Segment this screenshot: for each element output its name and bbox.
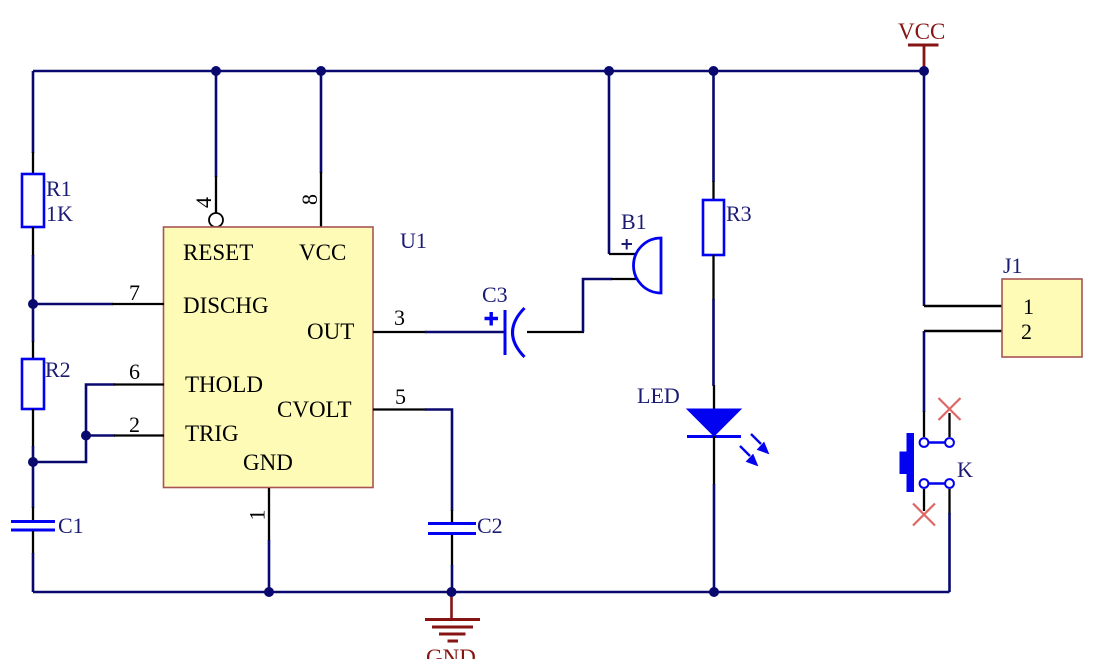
VCC symbol: [908, 45, 939, 69]
wire bottom ground rail: [33, 591, 950, 594]
wire C3 to buzzer: [583, 279, 612, 332]
switch K contact bar bottom: [924, 482, 950, 484]
pin 7 DISCHG stub: [112, 303, 164, 305]
pin R1 top: [32, 152, 34, 175]
wire top power rail: [33, 70, 924, 73]
svg-text:U1: U1: [400, 228, 427, 253]
wire TRIG node: [33, 436, 115, 463]
svg-text:DISCHG: DISCHG: [183, 293, 269, 318]
svg-text:VCC: VCC: [898, 19, 945, 44]
pin 5 CVOLT stub: [373, 408, 426, 410]
pin switch bottom-right stub: [948, 489, 950, 514]
pin 4 RESET stub: [215, 176, 217, 213]
LED cathode bar: [687, 435, 741, 438]
svg-text:RESET: RESET: [183, 240, 253, 265]
svg-text:R3: R3: [726, 201, 752, 226]
svg-text:5: 5: [395, 384, 406, 409]
pin C1 top: [32, 507, 34, 521]
wire pin1 to ground rail: [268, 540, 271, 592]
svg-text:THOLD: THOLD: [185, 372, 263, 397]
pin 2 TRIG stub: [114, 434, 164, 436]
pin LED bottom: [713, 436, 715, 485]
capacitor C1: [11, 522, 55, 531]
wire pin4 from rail: [215, 71, 218, 177]
junction node TRIG: [81, 431, 91, 441]
pin R2 bottom: [32, 409, 34, 447]
svg-text:2: 2: [129, 412, 140, 437]
svg-text:K: K: [957, 457, 973, 482]
svg-text:GND: GND: [243, 450, 293, 475]
pin R2 top: [32, 341, 34, 360]
junction node rail-VCC: [919, 66, 929, 76]
junction node TRIG left: [28, 457, 38, 467]
switch contact circle top-right: [945, 438, 954, 447]
junction node rail-R3: [709, 66, 719, 76]
no-connect cross bottom: [913, 504, 935, 526]
junction node rail-pin8: [316, 66, 326, 76]
wire OUT to C3: [425, 331, 504, 334]
switch contact circle bottom-right: [945, 479, 954, 488]
svg-text:CVOLT: CVOLT: [277, 397, 352, 422]
svg-text:VCC: VCC: [299, 240, 346, 265]
svg-text:OUT: OUT: [307, 319, 354, 344]
connector J1 body: [1002, 279, 1082, 357]
wire C2 to ground rail: [451, 565, 454, 592]
svg-text:C2: C2: [477, 513, 503, 538]
pin 1 GND stub: [268, 488, 270, 541]
junction node rail-pin4: [211, 66, 221, 76]
wire R3 from rail: [712, 71, 715, 182]
pin C1 bottom: [32, 531, 34, 554]
wire THOLD link: [86, 385, 115, 436]
LED arrows: [740, 434, 769, 466]
svg-text:R1: R1: [46, 176, 72, 201]
junction node gnd-LED: [709, 587, 719, 597]
C3 plus sign: [485, 312, 499, 326]
switch K plunger plate: [907, 433, 915, 492]
wire DISCHG node: [33, 303, 113, 306]
svg-text:C3: C3: [482, 282, 508, 307]
svg-text:2: 2: [1021, 319, 1032, 344]
svg-text:TRIG: TRIG: [185, 421, 239, 446]
wire pin8 from rail: [320, 71, 323, 173]
svg-text:1: 1: [245, 510, 270, 521]
wire R3 to LED: [712, 299, 715, 386]
pin 8 VCC stub: [320, 172, 322, 227]
junction node DISCHG: [28, 299, 38, 309]
pin R1 bottom: [32, 227, 34, 256]
pin buzzer top stub: [609, 253, 636, 255]
resistor R1: [22, 174, 44, 227]
switch contact circle top-left: [920, 438, 929, 447]
svg-text:C1: C1: [58, 513, 84, 538]
op-amp U1 555 timer body: [164, 227, 374, 488]
pin J1-1 stub: [924, 305, 1002, 308]
pin C3 right: [527, 331, 584, 333]
svg-text:7: 7: [129, 280, 140, 305]
junction node gnd-pin1: [264, 587, 274, 597]
junction node gnd-C2: [447, 587, 457, 597]
pin switch top-left stub: [923, 411, 925, 437]
svg-text:R2: R2: [45, 357, 71, 382]
capacitor C2: [428, 524, 476, 534]
wire left branch vertical (rail to R1): [32, 71, 35, 153]
svg-text:3: 3: [394, 305, 405, 330]
svg-text:6: 6: [129, 359, 140, 384]
wire R1 to node DISCHG: [32, 255, 35, 342]
LED D1 triangle: [687, 409, 741, 436]
wire VCC branch to J1 pin1: [923, 71, 926, 306]
pin switch bottom-left unused stub: [923, 489, 925, 511]
capacitor C3 polarized: [505, 308, 525, 357]
svg-text:4: 4: [191, 197, 216, 208]
pin C2 bottom: [451, 535, 453, 566]
svg-text:1K: 1K: [46, 201, 73, 226]
wire buzzer top from rail: [608, 71, 611, 254]
pin LED top: [713, 385, 715, 410]
pin C2 top: [451, 510, 453, 523]
buzzer B1: [634, 238, 662, 293]
svg-text:8: 8: [297, 194, 322, 205]
pin J1-2 stub: [924, 330, 1002, 333]
wire R2 to node TRIG: [32, 446, 35, 508]
ground symbol: [425, 592, 480, 641]
pin 3 OUT stub: [373, 331, 426, 333]
svg-text:1: 1: [1023, 294, 1034, 319]
junction node rail-buzzer: [604, 66, 614, 76]
switch contact circle bottom-left: [920, 479, 929, 488]
pin R3 bottom: [712, 255, 714, 300]
wire C1 to ground rail: [32, 553, 35, 592]
svg-text:LED: LED: [637, 383, 680, 408]
wire LED to ground rail: [713, 484, 716, 592]
switch K contact bar top: [924, 441, 950, 443]
wire switch to ground rail: [948, 513, 951, 592]
svg-text:GND: GND: [426, 645, 476, 659]
svg-text:J1: J1: [1003, 253, 1023, 278]
svg-text:B1: B1: [621, 209, 647, 234]
resistor R2: [22, 359, 44, 409]
wire J1 pin2 down to switch: [923, 331, 926, 412]
no-connect cross top: [939, 398, 961, 420]
pin 4 inversion bubble: [209, 213, 223, 227]
resistor R3: [703, 200, 724, 255]
pin switch top-right unused stub: [948, 413, 950, 437]
pin R3 top: [712, 181, 714, 201]
B1 plus sign: [622, 239, 633, 250]
pin 6 THOLD stub: [114, 383, 164, 385]
wire CVOLT to C2: [425, 410, 452, 512]
switch K button cap: [900, 452, 908, 475]
pin buzzer bottom stub: [611, 278, 637, 280]
